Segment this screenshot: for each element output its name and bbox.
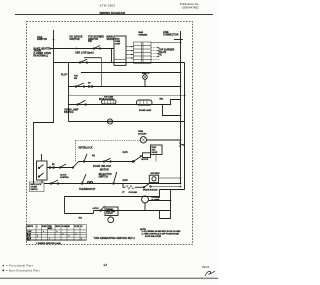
svg-text:SPARK MODULE: SPARK MODULE [143, 189, 158, 192]
svg-text:COOLING: COOLING [138, 133, 147, 135]
svg-text:OER LOW (jack): OER LOW (jack) [75, 53, 94, 55]
diagram dashed border [27, 22, 193, 245]
right bus L1 x180 [180, 31, 182, 184]
parts table [27, 224, 87, 240]
svg-text:KTM-2803: KTM-2803 [100, 3, 116, 7]
rung y104.5 [69, 104, 171, 106]
svg-text:THERMOSTAT: THERMOSTAT [79, 188, 96, 191]
chain rise blade [73, 161, 79, 168]
svg-text:THIS GENERATING SERVICE REV A: THIS GENERATING SERVICE REV A [94, 237, 136, 240]
lock switch blade 2 [39, 173, 44, 177]
latch switch [101, 206, 105, 211]
svg-text:IN NORMAL): IN NORMAL) [34, 55, 49, 58]
top bus wire y48.6 [50, 48, 114, 50]
cooling blower motor [142, 196, 149, 203]
vertical drop x64.5 [64, 197, 66, 214]
dashed console line [69, 95, 187, 97]
wire spark to bus [152, 186, 181, 188]
line tap on bus [174, 39, 183, 41]
neutral wire left run [34, 30, 54, 184]
chain wire y167.5 [47, 167, 73, 169]
svg-text:CUTOFF: CUTOFF [106, 213, 113, 215]
fan wire to bus [147, 139, 181, 141]
junction dot [180, 139, 182, 141]
interlock blade [84, 154, 87, 162]
wire upper branch y57.7 [84, 57, 102, 59]
selector blade [114, 173, 117, 184]
svg-text:C WIRING SERVICE (LAB): C WIRING SERVICE (LAB) [36, 242, 61, 245]
junction dot [180, 177, 182, 179]
svg-text:★ = Functional Part: ★ = Functional Part [2, 264, 33, 268]
rung y183.5 [44, 183, 181, 185]
svg-text:HARNESS: HARNESS [139, 34, 149, 37]
svg-text:MOTOR: MOTOR [142, 159, 149, 161]
svg-text:3000W: 3000W [34, 51, 42, 53]
svg-text:L: L [37, 226, 38, 228]
dashed drop from fan wire [75, 141, 77, 162]
junction dot [180, 183, 182, 185]
slant wire up to valve motor [134, 156, 143, 162]
svg-text:BROIL: BROIL [56, 226, 61, 228]
rung y121.7 [69, 121, 185, 123]
aux relay box [149, 175, 158, 182]
svg-text:ROUND LAMP: ROUND LAMP [139, 109, 152, 112]
wire jog x159.5 [159, 190, 161, 197]
svg-text:SWITCH: SWITCH [31, 189, 39, 191]
vertical drop x102 [101, 58, 103, 87]
main harness connector block grid [134, 42, 152, 63]
EOC control box [114, 36, 126, 65]
right bus N x184 [184, 63, 186, 190]
junction dot [180, 115, 182, 117]
junction dot [180, 121, 182, 123]
switch on rung y86 [76, 83, 84, 87]
convection motor circle [108, 217, 114, 223]
chain contacts [49, 167, 51, 169]
wire y213.5 [65, 213, 94, 215]
arrowhead left on top bus [74, 48, 77, 50]
svg-text:INTERLOCK: INTERLOCK [79, 147, 93, 149]
wire to spark blade [135, 186, 144, 188]
arrowhead on y63 [147, 62, 150, 63]
switch on top bus [94, 46, 100, 49]
svg-text:VALVE: VALVE [152, 151, 159, 154]
header rule [15, 14, 213, 16]
svg-text:LATCH: LATCH [93, 207, 100, 210]
small box valve motor [143, 153, 151, 158]
step wire to bus [163, 105, 181, 116]
svg-text:PLS: PLS [61, 74, 66, 76]
rec corner wire [171, 100, 181, 105]
svg-text:CONNECTOR: CONNECTOR [163, 34, 179, 36]
thermostat box [105, 207, 118, 216]
svg-text:(4): (4) [159, 53, 162, 56]
box top stub [41, 154, 43, 161]
svg-text:TOP LAMP: TOP LAMP [104, 95, 114, 98]
wire upper right rung [160, 189, 185, 191]
gas valve box [151, 145, 163, 155]
switch on y63 [80, 59, 87, 62]
arrowhead on neutral drop [53, 39, 55, 42]
component box under bus [160, 211, 171, 219]
bus wire y63 [53, 62, 185, 64]
oven light lamp [143, 75, 148, 80]
rung y86 [69, 86, 181, 88]
svg-text:CONTROL: CONTROL [60, 177, 70, 179]
back lock cover switch label box [30, 182, 45, 192]
svg-text:GAS: GAS [123, 179, 129, 182]
step down wire [123, 184, 125, 188]
lamp stem [144, 73, 146, 75]
junction dot [180, 42, 182, 44]
rung y72 [81, 72, 181, 74]
lamp on rung y121.7 [107, 119, 112, 124]
heater resistor [125, 185, 135, 189]
svg-text:TIME: TIME [48, 226, 52, 228]
junction dot [170, 200, 172, 202]
svg-text:SW: SW [74, 78, 77, 80]
junction dot [180, 72, 182, 74]
svg-text:AUX HEAT: AUX HEAT [151, 172, 161, 175]
chain blade up [60, 164, 66, 168]
svg-text:MOTOR: MOTOR [100, 169, 109, 171]
svg-text:GAS: GAS [123, 151, 129, 154]
signature squiggle [205, 271, 215, 276]
svg-text:NORM: NORM [42, 226, 47, 228]
wire blower tap [149, 200, 171, 202]
wire vertical x170.5 [170, 190, 172, 211]
thermostat contact pair [88, 181, 90, 183]
svg-text:SWITCH: SWITCH [27, 226, 33, 228]
svg-text:DOOR UNLOCKED: DOOR UNLOCKED [145, 236, 162, 238]
connector outgoing dashed wires [151, 47, 160, 49]
svg-text:GY-V: GY-V [27, 239, 31, 241]
connector left stub wires [126, 46, 134, 48]
rung y161 [79, 161, 135, 163]
clean switch blade [82, 174, 86, 183]
box bottom stub [41, 180, 43, 184]
wire aux to bus [159, 177, 181, 179]
junction dot [180, 86, 182, 88]
svg-text:59/24: 59/24 [202, 265, 210, 269]
thermal breaker on right bus [179, 142, 182, 147]
bottom bus y211 [94, 210, 171, 212]
contact dot on rung y161.5 [132, 161, 134, 163]
svg-text:SWITCH: SWITCH [64, 112, 74, 114]
arrowheads into connector [131, 46, 133, 47]
rung y196 [65, 196, 160, 198]
aux relay coil circle [152, 177, 156, 181]
door lock switch box [37, 161, 48, 180]
wire drop x111 [111, 49, 113, 63]
junction dot [180, 186, 182, 188]
table row text [27, 231, 82, 242]
switch on rung y161.5 [104, 158, 111, 161]
vertical joiner x68 [68, 63, 70, 122]
footer rule [0, 277, 218, 279]
arrowheads on connector wires [158, 47, 160, 48]
spark blade [144, 184, 149, 188]
fan wire dashed segment [76, 140, 141, 142]
svg-text:4A: 4A [92, 155, 95, 158]
svg-text:DOOR UNLOCK: DOOR UNLOCK [93, 166, 111, 168]
svg-text:✱ = Non-Illustrated Part: ✱ = Non-Illustrated Part [2, 269, 40, 273]
gas valve drop [155, 155, 157, 162]
table header text [27, 225, 84, 230]
contact pair [88, 86, 90, 88]
cooling fan motor [140, 137, 146, 143]
switch on rung y183.5 [51, 180, 58, 184]
svg-text:5995447862: 5995447862 [182, 6, 198, 10]
lock switch blade 1 [39, 165, 44, 169]
broil ignitor oval 2 [137, 100, 153, 105]
svg-text:COOLING: COOLING [129, 192, 138, 194]
svg-text:IGNITOR: IGNITOR [37, 39, 47, 41]
svg-text:SWITCH: SWITCH [99, 177, 109, 179]
svg-text:TH1: TH1 [79, 218, 82, 220]
switch on rung y104.5 [78, 100, 86, 104]
broil ignitor oval 1 [102, 100, 117, 104]
svg-text:IGNITOR: IGNITOR [70, 39, 80, 41]
wire connector to bus [151, 42, 181, 44]
